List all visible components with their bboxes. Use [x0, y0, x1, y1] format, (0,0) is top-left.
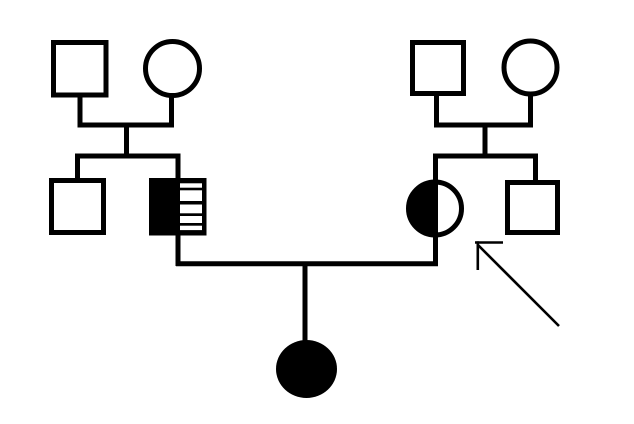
- individual II-1: male square child (unaffected): [52, 181, 104, 233]
- wire: right grandfather drop: [434, 94, 439, 125]
- individual II-4: male square child (unaffected): [508, 183, 558, 233]
- wire: right grandmother drop: [528, 92, 533, 125]
- wire: right marriage-to-sibship drop: [483, 125, 488, 158]
- wire: drop through carrier daughter II-3 down to couple line: [433, 156, 438, 266]
- wire: left grandfather drop: [78, 95, 83, 125]
- proband arrow head horizontal barb: [475, 241, 503, 244]
- wire: drop to affected child III-1: [303, 264, 308, 342]
- wire: left sibship line: [75, 154, 181, 159]
- wire: right sibship line: [433, 154, 538, 159]
- individual I-4: female circle (right grandmother): [504, 41, 557, 94]
- proband arrow shaft: [478, 245, 560, 327]
- wire: left grandmother drop: [169, 93, 174, 125]
- individual I-1: male square (left grandfather): [54, 43, 107, 96]
- wire: drop to son II-4: [533, 156, 538, 183]
- wire: left marriage line: [78, 123, 175, 128]
- wire: left marriage-to-sibship drop: [124, 125, 129, 158]
- individual I-2: female circle (left grandmother): [146, 42, 200, 96]
- individual II-2: half-shaded / hatched male square (carrier father): [149, 178, 207, 236]
- wire: drop to son II-1: [75, 156, 80, 182]
- individual II-3: half-filled female circle (carrier mother, proband): [409, 182, 462, 235]
- proband arrow head vertical barb: [476, 241, 479, 270]
- wire: parents couple line (II-2 x II-3): [176, 261, 438, 266]
- wire: right marriage line: [434, 123, 533, 128]
- individual I-3: male square (right grandfather): [413, 43, 464, 94]
- wire: drop through carrier son II-2 down to couple line: [176, 156, 181, 266]
- individual III-1: affected female, filled circle: [276, 340, 337, 398]
